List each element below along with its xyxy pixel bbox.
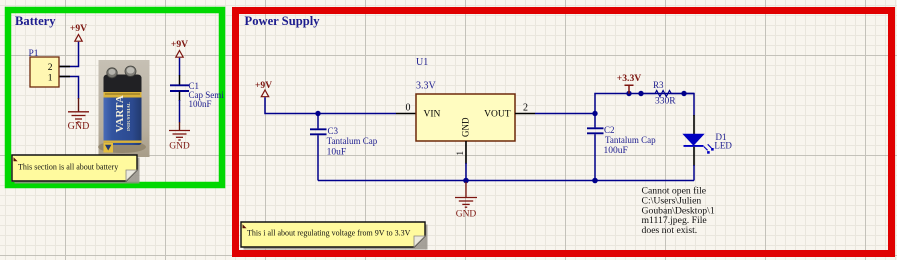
junction R3 left (638, 91, 643, 96)
U1 VIN pin 0 (396, 113, 416, 115)
svg-text:3.3V: 3.3V (416, 81, 437, 92)
svg-text:+9V: +9V (255, 80, 272, 91)
svg-text:This section is all about batt: This section is all about battery (18, 162, 118, 171)
resistor R3 (641, 80, 684, 107)
svg-text:0: 0 (406, 103, 411, 114)
svg-text:Tantalum Cap: Tantalum Cap (327, 136, 378, 146)
power port +9V (above C1) (171, 39, 188, 57)
bottom yellow strip (104, 141, 142, 143)
ground symbol (C1) (169, 131, 190, 141)
svg-text:does not exist.: does not exist. (642, 225, 698, 236)
svg-text:P1: P1 (29, 49, 39, 59)
regulator U1 (416, 57, 515, 141)
U1 GND pin 1 (465, 141, 467, 164)
power port +9V (battery) (70, 23, 87, 41)
junction GND (463, 178, 469, 184)
capacitor C2 (587, 114, 656, 181)
svg-text:U1: U1 (416, 57, 428, 68)
svg-text:VARTA: VARTA (114, 95, 126, 133)
capacitor C3 (310, 114, 378, 181)
svg-text:C3: C3 (328, 126, 339, 136)
junction C2 bottom (592, 178, 598, 184)
svg-text:330R: 330R (655, 97, 676, 107)
C1 bottom pin and wire to GND (179, 92, 181, 102)
pin stubs P1 (black) (59, 67, 70, 77)
LED D1 (684, 132, 733, 154)
note: power supply section (241, 222, 428, 250)
svg-text:VOUT: VOUT (484, 109, 511, 119)
wire P1 pin1 down to GND (59, 77, 79, 100)
svg-text:Battery: Battery (15, 14, 56, 28)
svg-text:INDUSTRIAL: INDUSTRIAL (126, 102, 131, 131)
note: battery section (12, 155, 140, 184)
svg-text:GND: GND (456, 209, 477, 219)
red section border (Power Supply) (236, 11, 892, 254)
logo square (104, 143, 114, 153)
power port +3.3V (617, 73, 641, 94)
terminals (107, 68, 117, 78)
junction +3.3V (626, 91, 631, 96)
black top cap (104, 75, 142, 93)
body (104, 76, 142, 145)
svg-text:LED: LED (714, 141, 732, 151)
junction R3 right (681, 91, 686, 96)
svg-text:100uF: 100uF (604, 146, 628, 156)
missing image placeholder text (642, 186, 715, 237)
wire U1 pin1 to rail (465, 163, 467, 181)
wire R3 to LED (684, 94, 694, 117)
svg-text:VIN: VIN (424, 109, 441, 119)
ground symbol (battery) (68, 112, 89, 122)
junction node VIN/C3 (315, 111, 320, 116)
power port +9V (supply) (255, 80, 272, 97)
LED anode pin (693, 115, 695, 134)
svg-text:GND: GND (68, 121, 90, 132)
svg-text:Power Supply: Power Supply (245, 14, 321, 28)
wire +9V to U1 VIN (265, 97, 396, 113)
svg-text:Tantalum Cap: Tantalum Cap (605, 135, 656, 145)
svg-text:1: 1 (456, 151, 466, 156)
wire up to 3.3V rail (595, 94, 694, 114)
svg-text:1: 1 (48, 73, 53, 83)
junction C2 top (592, 111, 597, 116)
wire P1 pin2 to +9V (59, 42, 79, 67)
C1 top pin (179, 75, 181, 85)
battery photo (VARTA 9V) (98, 60, 150, 157)
U1 VOUT pin 2 (515, 113, 535, 115)
green section border (Battery) (8, 10, 222, 185)
svg-text:+9V: +9V (70, 23, 87, 34)
capacitor C1 (170, 81, 224, 109)
wire +9V to C1 (179, 58, 181, 76)
ground rail (318, 180, 694, 182)
svg-text:2: 2 (523, 103, 528, 114)
svg-text:This i all about regulating vo: This i all about regulating voltage from… (247, 228, 411, 237)
yellow band (104, 92, 142, 98)
svg-text:+9V: +9V (171, 39, 188, 50)
svg-text:100nF: 100nF (189, 99, 212, 109)
svg-text:10uF: 10uF (327, 147, 347, 157)
wire VOUT to C2 junction (535, 113, 595, 115)
svg-text:R3: R3 (653, 80, 664, 90)
svg-text:GND: GND (169, 142, 190, 152)
svg-text:+3.3V: +3.3V (617, 73, 641, 84)
svg-text:2: 2 (48, 63, 53, 73)
ground symbol (U1) (455, 182, 477, 207)
shadow (98, 141, 146, 153)
svg-text:C2: C2 (604, 125, 615, 135)
LED cathode pin + wire to rail (693, 147, 695, 166)
svg-text:GND: GND (461, 117, 471, 137)
connector P1 (29, 49, 60, 87)
